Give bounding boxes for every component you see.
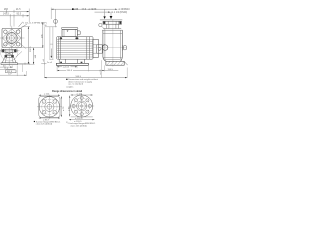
right flange bolt holes 8x <box>80 96 83 99</box>
bottom dim tier 2 right <box>104 70 118 72</box>
svg-text:ø 4.5: ø 4.5 <box>100 69 102 75</box>
bottom dim tier 1 <box>57 66 77 68</box>
pump shaft centerline <box>92 47 127 49</box>
right flange top dim <box>71 94 93 96</box>
leader diagonal to square corner <box>19 22 23 27</box>
svg-text:302.5: 302.5 <box>30 46 32 52</box>
balloon callout 1 <box>55 9 57 27</box>
lower-left body stack <box>6 52 12 55</box>
svg-text:ø 40/DN40: ø 40/DN40 <box>119 9 131 11</box>
right flange circles <box>71 95 93 117</box>
svg-text:ø 84: ø 84 <box>68 106 70 111</box>
right vertical dim A <box>22 26 30 28</box>
discharge flange bar <box>103 21 122 24</box>
bolt holes square flange <box>4 30 8 34</box>
svg-text:2x ø9: 2x ø9 <box>47 62 53 64</box>
flange neck <box>106 24 118 28</box>
cooling clearance annotation <box>45 26 57 28</box>
tier under motor left segment <box>17 63 46 65</box>
inscribed diamond <box>2 29 21 47</box>
section heading <box>52 90 82 93</box>
extension vertical x44.5 <box>44 27 46 63</box>
bottom dim tier 2 <box>57 69 104 71</box>
extension verticals top-left <box>10 9 29 27</box>
terminal box lid <box>62 27 78 29</box>
right vertical dim B <box>22 47 44 49</box>
right thin vertical with rotated label <box>101 60 103 77</box>
casing lower horizontals <box>103 58 121 60</box>
svg-text:240.5: 240.5 <box>67 70 73 72</box>
motor section verticals <box>59 37 90 59</box>
svg-text:44.5: 44.5 <box>82 9 87 11</box>
left flange bottom dim <box>39 117 60 119</box>
small mark on lid <box>67 30 69 31</box>
svg-text:class 125 (drilled): class 125 (drilled) <box>71 124 88 127</box>
motor body outline <box>57 37 93 60</box>
left flange square plate <box>39 96 60 117</box>
top-right dimension line 2 <box>95 11 111 13</box>
right flange bottom dims <box>71 116 93 118</box>
left-bottom dims <box>0 66 12 68</box>
svg-text:ø 110: ø 110 <box>44 93 50 95</box>
extension verticals bottom <box>57 65 104 71</box>
lifting lugs <box>60 37 63 39</box>
diagonal leader right of square <box>19 42 26 48</box>
left flange right dim <box>60 96 62 117</box>
legs trapezoid <box>2 57 16 62</box>
top-left dimension text row1 <box>4 9 21 11</box>
svg-text:a=104: a=104 <box>63 67 70 69</box>
side plug bump <box>123 46 126 50</box>
svg-text:555.5: 555.5 <box>76 76 82 78</box>
volute circle lower view <box>1 44 18 61</box>
lower-left view centerlines <box>0 50 20 52</box>
left flange top dim <box>39 94 60 96</box>
extension vertical x51 <box>50 8 52 19</box>
center circles <box>6 33 17 44</box>
balloon callout 2 <box>99 23 102 26</box>
flange face line <box>100 19 122 21</box>
crosshair square view <box>0 37 25 39</box>
motor fins <box>57 39 93 57</box>
right flange detail: crosshair <box>69 105 94 107</box>
svg-text:92.5: 92.5 <box>17 14 22 16</box>
full width bottom dim <box>44 64 127 77</box>
svg-text:21.5: 21.5 <box>16 9 21 11</box>
svg-text:ø 42/48: ø 42/48 <box>89 9 98 11</box>
svg-text:G 1 1/2 (DN40): G 1 1/2 (DN40) <box>112 12 128 14</box>
svg-text:ø 76: ø 76 <box>63 106 65 111</box>
svg-text:weights: weights <box>66 85 73 88</box>
right flange left dim <box>69 96 71 117</box>
right vertical dim C <box>42 22 44 48</box>
leader from flange corner <box>16 24 27 31</box>
top-left dimension line 2 <box>0 15 29 17</box>
note block <box>66 79 67 80</box>
motor feet webs <box>59 59 84 63</box>
text label G thread <box>23 22 47 24</box>
adapter bracket <box>93 39 98 57</box>
casing base hatched <box>106 61 124 65</box>
square flange view outline <box>2 28 22 47</box>
svg-text:143.5: 143.5 <box>3 14 9 16</box>
base right diagonal <box>124 62 127 66</box>
cable gland box <box>77 31 80 35</box>
boxed label <box>6 70 16 73</box>
extension line y64 <box>17 63 35 65</box>
left flange detail: crosshair <box>37 106 62 108</box>
terminal box body <box>62 29 77 36</box>
svg-text:acc. to standard: acc. to standard <box>68 83 84 86</box>
leader to lower view <box>16 51 22 57</box>
top-left dimension line 1 <box>0 11 29 13</box>
motor base bar <box>56 63 88 65</box>
lower-left pump view: top flange bar <box>1 49 17 52</box>
flange arrows right <box>105 9 111 17</box>
top-right dimension line 1 <box>51 8 117 10</box>
svg-text:class 125 (drilled): class 125 (drilled) <box>36 123 53 126</box>
pump casing body <box>103 30 123 61</box>
pump centerline vertical <box>112 19 114 66</box>
casing shoulder <box>102 29 122 31</box>
left flange caption <box>34 121 35 122</box>
casing plug circle <box>102 45 108 51</box>
left flange bolt holes <box>42 100 46 104</box>
left flange circles <box>39 97 59 117</box>
base bar lower-left view <box>1 63 17 65</box>
aux flange with plug <box>96 45 102 53</box>
svg-text:114.5: 114.5 <box>108 69 114 71</box>
svg-text:ø 120: ø 120 <box>77 93 83 95</box>
right flange caption <box>66 122 96 127</box>
top-left dimension text row2 <box>3 14 22 16</box>
